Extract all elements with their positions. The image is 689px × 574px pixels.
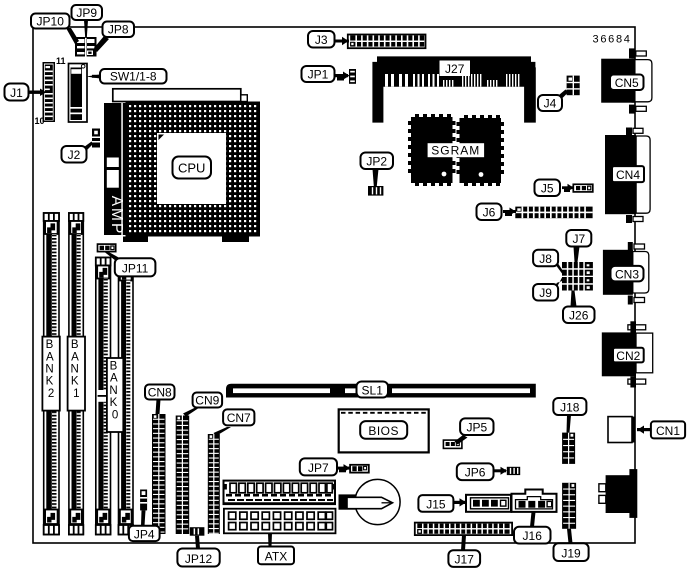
connector J18 (562, 433, 575, 464)
wire CN9 leader (183, 407, 200, 416)
jumper JP1 (349, 69, 356, 84)
svg-text:SW1/1-8: SW1/1-8 (110, 70, 157, 84)
wire J4 leader (556, 90, 569, 101)
label BIOS (360, 421, 407, 439)
connector J15 (466, 495, 511, 512)
wire JP4 leader (141, 510, 146, 525)
svg-text:J15: J15 (426, 497, 446, 511)
label J4 (538, 95, 562, 111)
wire J17 leader (461, 535, 466, 550)
jumper JP5 (443, 440, 462, 448)
wire J9 leader (557, 278, 563, 289)
connector CN7 (208, 434, 220, 534)
battery (339, 479, 401, 524)
svg-text:JP10: JP10 (37, 15, 65, 29)
svg-text:J27: J27 (445, 62, 465, 76)
svg-text:11: 11 (56, 56, 66, 66)
wire J26 leader (571, 291, 577, 307)
svg-text:J7: J7 (572, 232, 585, 246)
label J27 (440, 61, 471, 77)
label JP4 (129, 526, 160, 542)
svg-text:J19: J19 (561, 546, 581, 560)
wire J2 leader (80, 142, 93, 154)
label SW1/1-8 (100, 69, 167, 84)
connector J17 (415, 523, 512, 536)
connector J6 (515, 207, 592, 219)
label J18 (553, 398, 586, 415)
jumper JP6 (507, 467, 520, 475)
svg-text:CN3: CN3 (615, 267, 639, 281)
svg-text:J3: J3 (315, 33, 328, 47)
wire J6 leader (503, 210, 516, 213)
key notch BANK0 slot (98, 390, 109, 402)
svg-text:J8: J8 (539, 252, 552, 266)
label CN8 (145, 385, 175, 400)
wire ATX leader (268, 533, 272, 546)
svg-text:CN9: CN9 (195, 394, 219, 408)
svg-text:AMP: AMP (108, 196, 125, 236)
DIMM slot BANK1-slot (69, 213, 83, 535)
wire JP6 leader (494, 469, 506, 472)
svg-text:36684: 36684 (593, 34, 632, 46)
label JP11 (115, 258, 156, 276)
wire J8 leader (557, 261, 563, 274)
chip SGRAM left (408, 114, 456, 186)
label JP8 (103, 22, 135, 38)
connector J5 (573, 184, 593, 192)
label J7 (566, 230, 591, 247)
label J17 (448, 550, 480, 567)
jumper JP7 (350, 465, 369, 473)
svg-text:J26: J26 (569, 309, 589, 323)
svg-text:JP4: JP4 (134, 527, 155, 541)
svg-text:JP6: JP6 (465, 466, 486, 480)
chip BIOS (339, 409, 429, 452)
svg-text:J5: J5 (541, 182, 554, 196)
label J8 (533, 250, 558, 266)
svg-text:JP11: JP11 (122, 262, 149, 276)
wire J1 leader (28, 91, 44, 94)
DIMM slot BANK2-slot (44, 213, 59, 535)
label JP9 (72, 5, 103, 20)
svg-text:J4: J4 (544, 97, 557, 111)
svg-text:J16: J16 (523, 529, 543, 543)
label CN3 (611, 266, 644, 282)
connector CN9 (176, 416, 190, 535)
label JP2 (361, 153, 394, 170)
svg-text:JP7: JP7 (308, 461, 329, 475)
heatsink bar AMP (104, 103, 126, 235)
label JP5 (460, 418, 493, 435)
wire J7 leader (574, 247, 580, 263)
label J9 (533, 284, 558, 301)
label J3 (308, 31, 335, 48)
label J19 (554, 543, 589, 561)
CPU socket lever bar (113, 89, 241, 102)
svg-text:J18: J18 (560, 401, 580, 415)
wire JP10 leader (66, 28, 79, 44)
connector CN2 (602, 321, 653, 387)
svg-text:ATX: ATX (265, 550, 287, 564)
label ATX (258, 547, 294, 565)
connector J19 (562, 483, 576, 529)
wire J19 leader (567, 529, 573, 544)
svg-text:JP1: JP1 (308, 68, 329, 82)
svg-text:JP2: JP2 (366, 155, 387, 169)
label JP12 (177, 549, 219, 567)
label J6 (477, 204, 502, 221)
svg-text:CN5: CN5 (615, 76, 639, 90)
CPU socket body (126, 102, 261, 237)
socket J27 (372, 56, 535, 122)
svg-text:BIOS: BIOS (368, 424, 399, 438)
wire J15 leader (452, 501, 467, 504)
svg-text:CN4: CN4 (616, 168, 640, 182)
wire JP9 leader (84, 20, 88, 38)
jumper J2 (92, 129, 100, 148)
svg-text:J9: J9 (539, 286, 552, 300)
svg-text:JP5: JP5 (466, 421, 487, 435)
svg-text:SL1: SL1 (362, 383, 384, 397)
svg-text:J17: J17 (455, 553, 475, 567)
label J26 (563, 307, 595, 324)
socket feet (123, 237, 148, 243)
switch SW1 (69, 64, 88, 123)
jumper block JP8/JP9/JP10 (75, 37, 97, 57)
svg-text:CN8: CN8 (148, 386, 172, 400)
svg-text:J1: J1 (10, 86, 23, 100)
connector ATX power (224, 509, 336, 534)
connector CN3 (603, 242, 649, 305)
board outline (33, 27, 635, 543)
label BANK0 (107, 358, 123, 432)
jumper JP12 (190, 527, 205, 536)
jumper block J4 (567, 76, 580, 96)
svg-text:J2: J2 (68, 148, 81, 162)
label CN4 (612, 166, 644, 182)
wire J16 leader (530, 512, 536, 527)
wire CN7 leader (214, 427, 232, 436)
label SL1 (357, 382, 389, 398)
label J15 (418, 495, 453, 512)
wire SW1 leader (86, 75, 100, 79)
wire JP1 leader (334, 74, 348, 77)
connector audio jack (599, 469, 637, 518)
wire CN8 leader (156, 399, 161, 414)
chip SGRAM right (457, 115, 505, 186)
svg-text:SGRAM: SGRAM (431, 144, 480, 158)
connector FDD header (224, 481, 336, 505)
slot SL1 (226, 384, 536, 398)
connector J3 (348, 35, 426, 49)
wire J18 leader (567, 415, 572, 433)
svg-text:CPU: CPU (178, 161, 205, 176)
label J16 (514, 527, 551, 544)
wire JP11 leader (104, 252, 120, 261)
label CN5 (610, 75, 644, 91)
label SGRAM (428, 143, 485, 157)
connector CN8 (152, 414, 166, 534)
label J1 (5, 84, 29, 101)
svg-text:JP8: JP8 (108, 23, 129, 37)
jumper JP11 (98, 244, 116, 252)
wire JP5 leader (455, 435, 468, 445)
label JP6 (457, 463, 494, 480)
label JP7 (300, 458, 337, 475)
label JP10 (31, 14, 70, 29)
svg-text:10: 10 (35, 116, 45, 126)
label BANK1 (68, 337, 85, 411)
label CN9 (193, 393, 223, 408)
connector J16 (512, 490, 557, 512)
connector CN1 (608, 417, 635, 443)
wire JP2 leader (373, 169, 379, 186)
connector CN4 (605, 128, 650, 224)
jumper JP4 (140, 490, 147, 511)
label J5 (535, 180, 561, 197)
label J2 (62, 146, 87, 163)
jumper JP2 (368, 186, 383, 196)
DIMM slot DIMM-slot-4 (119, 260, 134, 535)
wire JP7 leader (337, 467, 350, 470)
svg-text:CN1: CN1 (656, 424, 680, 438)
jumper block J7/J8/J9/J26 (562, 262, 593, 291)
label CN1 (651, 421, 685, 438)
label BANK2 (42, 337, 59, 411)
svg-text:J6: J6 (483, 206, 496, 220)
svg-text:CN2: CN2 (616, 349, 640, 363)
connector J1 (35, 56, 66, 126)
connector CN5 (601, 48, 652, 113)
wire J3 leader (333, 40, 349, 43)
wire JP12 leader (195, 536, 200, 549)
label CN7 (223, 409, 254, 425)
svg-text:JP9: JP9 (76, 6, 97, 20)
wire CN1 leader (637, 428, 651, 431)
DIMM slot BANK0-slot (96, 258, 111, 535)
label CPU (173, 157, 212, 179)
wire JP8 leader (94, 36, 109, 52)
label CN2 (613, 348, 644, 363)
label JP1 (302, 66, 335, 82)
svg-text:CN7: CN7 (227, 411, 251, 425)
wire J5 leader (562, 186, 573, 189)
svg-text:JP12: JP12 (185, 552, 213, 566)
